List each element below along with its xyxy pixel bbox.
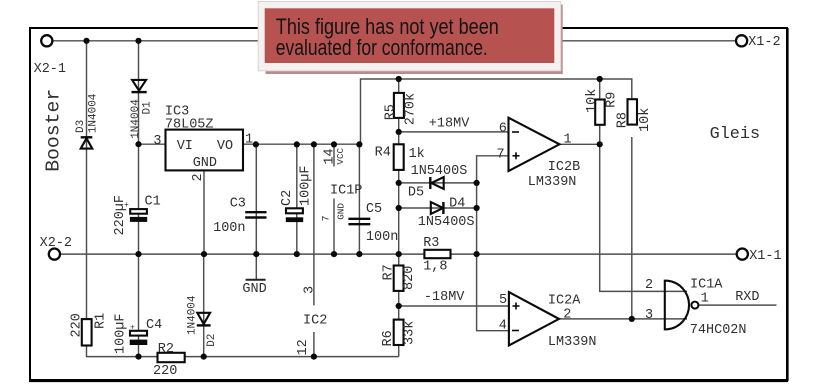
svg-text:-18MV: -18MV <box>424 290 465 305</box>
svg-text:IC1A: IC1A <box>690 278 723 293</box>
svg-text:12: 12 <box>296 339 311 355</box>
junction gnd rail / C2 <box>294 251 300 257</box>
junction gnd rail / feedback line <box>474 251 480 257</box>
wire: IC1P VCC pin14 <box>333 144 335 166</box>
junction VO rail / C5 <box>356 141 362 147</box>
svg-text:6: 6 <box>499 121 507 136</box>
resistor R6 33k <box>381 320 417 347</box>
svg-text:1: 1 <box>245 132 253 147</box>
op-amp IC2B LM339N <box>509 118 581 191</box>
svg-text:Gleis: Gleis <box>710 125 761 144</box>
resistor R4 1k <box>375 144 425 170</box>
resistor R9 10k <box>585 89 620 125</box>
svg-text:100µF: 100µF <box>114 313 129 354</box>
wire: D1/C1/C4 branch x=138.5 <box>138 41 140 254</box>
op-amp IC2A LM339N <box>509 292 597 350</box>
junction gnd rail / C3 GND <box>253 251 259 257</box>
svg-text:5: 5 <box>499 293 507 308</box>
svg-text:GND: GND <box>193 156 217 171</box>
junction bottom rail / C4 <box>135 354 141 360</box>
svg-text:3: 3 <box>645 308 653 323</box>
svg-text:IC2B: IC2B <box>548 160 580 175</box>
svg-text:IC2A: IC2A <box>548 293 581 308</box>
svg-text:R9: R9 <box>605 92 620 108</box>
junction top subrail / R5 <box>396 76 402 82</box>
wire: C5 branch <box>358 144 360 254</box>
junction VO rail / C3 <box>253 141 259 147</box>
resistor R7 820 <box>382 264 418 291</box>
svg-text:C2: C2 <box>280 190 295 206</box>
terminal X1-1 <box>737 249 782 265</box>
IC1P power element <box>322 147 363 221</box>
svg-text:GND: GND <box>335 203 346 220</box>
wire: IC2B out down to IC1A pin2 <box>600 144 687 291</box>
svg-text:1,8: 1,8 <box>423 260 447 275</box>
svg-text:2: 2 <box>563 307 571 322</box>
wire: VO +5V rail <box>243 79 632 144</box>
svg-text:220: 220 <box>70 313 85 337</box>
svg-text:7: 7 <box>322 215 333 221</box>
svg-text:1N5400S: 1N5400S <box>411 164 468 179</box>
svg-text:3: 3 <box>153 134 161 149</box>
svg-text:X2-2: X2-2 <box>40 236 72 251</box>
svg-text:X1-2: X1-2 <box>748 35 780 50</box>
junction R8 / IC2A out <box>629 316 635 322</box>
junction D4 right <box>474 205 480 211</box>
svg-text:1N4004: 1N4004 <box>187 295 199 335</box>
svg-text:2: 2 <box>645 278 653 293</box>
svg-text:X2-1: X2-1 <box>34 62 66 77</box>
regulator IC3 78L05Z <box>165 105 243 171</box>
svg-text:D3: D3 <box>75 120 87 133</box>
junction gnd rail / R7 <box>396 251 402 257</box>
svg-text:78L05Z: 78L05Z <box>165 118 214 133</box>
wire: D4 net <box>399 207 477 209</box>
svg-text:Booster: Booster <box>43 89 65 172</box>
junction IC3 pin3 <box>135 141 141 147</box>
svg-text:C4: C4 <box>146 318 162 333</box>
wire: D2 branch to bottom rail <box>203 254 205 357</box>
svg-text:100n: 100n <box>366 230 398 245</box>
svg-text:4: 4 <box>499 318 507 333</box>
svg-text:D1: D1 <box>142 101 154 115</box>
wire: R9 bottom <box>599 125 601 145</box>
resistor R5 270k <box>383 93 418 125</box>
wire: top net X2-1 rail <box>53 40 737 42</box>
svg-text:IC2: IC2 <box>303 314 327 329</box>
capacitor C1 220uF <box>113 195 161 236</box>
svg-text:X1-1: X1-1 <box>749 249 781 264</box>
terminal X2-2 <box>40 236 72 260</box>
wire: IC3 pin3 <box>139 143 166 145</box>
NOR gate IC1A 74HC02N <box>665 278 747 339</box>
svg-text:74HC02N: 74HC02N <box>690 323 747 338</box>
svg-text:+18MV: +18MV <box>429 117 470 132</box>
svg-text:D2: D2 <box>206 334 218 347</box>
wire: vertical feedback x=476.6 pin7 to pin4 <box>477 156 509 331</box>
resistor R1 220 <box>70 313 109 346</box>
svg-text:VCC: VCC <box>335 147 346 164</box>
svg-text:270k: 270k <box>404 93 419 125</box>
diode D2 <box>187 295 219 347</box>
svg-text:VI: VI <box>177 139 193 154</box>
svg-text:10k: 10k <box>585 89 600 113</box>
svg-text:100n: 100n <box>213 221 245 236</box>
svg-text:R3: R3 <box>423 236 439 251</box>
wire: IC2 power pin3 branch <box>313 144 315 305</box>
svg-text:R2: R2 <box>158 342 174 357</box>
svg-text:+: + <box>130 324 135 333</box>
svg-text:3: 3 <box>302 286 317 294</box>
svg-text:33k: 33k <box>402 321 417 345</box>
wire: +18MV to IC2B pin6 <box>399 131 509 133</box>
svg-text:R8: R8 <box>615 112 630 128</box>
wire: -18MV to IC2A pin5 <box>399 305 509 307</box>
svg-text:R5: R5 <box>383 104 398 120</box>
svg-text:220µF: 220µF <box>113 195 128 236</box>
wire: C4 branch below rail <box>138 254 140 357</box>
svg-text:1N4004: 1N4004 <box>130 99 142 139</box>
resistor R3 1,8 <box>423 236 450 275</box>
wire: RXD output <box>698 304 776 306</box>
svg-text:7: 7 <box>497 147 505 162</box>
svg-text:D4: D4 <box>449 197 465 212</box>
wire: IC2A output to IC1A pin3 <box>559 318 687 320</box>
svg-text:R7: R7 <box>382 264 397 280</box>
wire: R8 bottom to output net <box>631 137 633 319</box>
junction VO rail / C2 <box>294 141 300 147</box>
svg-text:1N4004: 1N4004 <box>87 93 99 133</box>
junction gnd rail / IC3 pin2 D2 <box>201 251 207 257</box>
wire: gnd rail X2-2 to X1-1 <box>60 253 737 255</box>
junction D5 right <box>474 180 480 186</box>
svg-text:C1: C1 <box>145 195 161 210</box>
capacitor C4 100uF <box>114 313 163 354</box>
svg-text:1: 1 <box>564 132 572 147</box>
wire: R1 bottom to bottom rail <box>87 346 399 357</box>
terminal X2-1 <box>34 35 66 77</box>
svg-text:R1: R1 <box>93 313 108 329</box>
capacitor C5 100n <box>348 202 398 245</box>
svg-text:10k: 10k <box>638 108 653 132</box>
svg-text:D5: D5 <box>408 186 424 201</box>
svg-text:100µF: 100µF <box>298 165 313 206</box>
junction gnd rail / IC1P GND <box>331 251 337 257</box>
svg-text:1N5400S: 1N5400S <box>418 215 475 230</box>
svg-text:RXD: RXD <box>735 290 759 305</box>
svg-text:LM339N: LM339N <box>528 175 577 190</box>
junction gnd rail / C5 <box>356 251 362 257</box>
svg-text:C3: C3 <box>230 197 246 212</box>
IC2 power element <box>296 286 327 356</box>
wire: R9 top <box>599 79 601 100</box>
wire: D5 net <box>399 182 477 184</box>
svg-text:1: 1 <box>701 291 709 306</box>
junction VO rail / IC1P VCC <box>331 141 337 147</box>
junction top rail / D1 branch <box>135 38 141 44</box>
wire: IC1P GND pin7 <box>333 199 335 255</box>
svg-text:R6: R6 <box>381 330 396 346</box>
junction R7/R6 -18MV <box>396 303 402 309</box>
junction IC2B output / R9 <box>597 141 603 147</box>
diode D1 <box>130 80 154 139</box>
junction bottom rail / D2 <box>201 354 207 360</box>
wire: left booster branch x=86.5 <box>86 41 88 319</box>
capacitor C2 100uF <box>280 165 313 222</box>
junction bottom rail / IC2 pin12 <box>311 354 317 360</box>
wire: C2 branch <box>296 144 298 254</box>
resistor R8 10k <box>615 99 653 132</box>
diode D4 1N5400S <box>418 197 475 231</box>
wire: IC2 power pin12 branch <box>313 332 315 357</box>
svg-text:GND: GND <box>242 282 266 297</box>
svg-text:2: 2 <box>191 173 206 181</box>
wire: IC2B output to R9 junction <box>560 143 600 145</box>
junction R5/R4 +18MV <box>396 129 402 135</box>
svg-text:220: 220 <box>153 364 177 379</box>
svg-text:R4: R4 <box>375 146 391 161</box>
svg-text:IC1P: IC1P <box>330 183 362 198</box>
junction D4 left <box>396 205 402 211</box>
wire: C3 branch <box>255 144 257 254</box>
svg-text:evaluated for conformance.: evaluated for conformance. <box>276 35 488 60</box>
wire: R7/R6 chain <box>398 254 400 357</box>
junction VO rail / IC2 pin3 <box>311 141 317 147</box>
junction gnd rail / C1-C4 <box>135 251 141 257</box>
wire: GND stub below rail <box>255 254 257 279</box>
svg-text:C5: C5 <box>366 202 382 217</box>
terminal X1-2 <box>736 35 781 50</box>
resistor R2 220 <box>153 342 185 379</box>
svg-text:820: 820 <box>402 266 417 290</box>
capacitor C3 100n <box>213 197 266 237</box>
svg-text:VO: VO <box>217 139 233 154</box>
conformance banner <box>258 2 563 75</box>
wire: divider chain R5/R4 x=398.7 <box>398 79 400 254</box>
svg-text:LM339N: LM339N <box>548 335 597 350</box>
junction top subrail / R9 <box>597 76 603 82</box>
ground symbol GND (below rail) <box>242 280 266 297</box>
wire: IC3 pin2 down to gnd rail <box>203 170 205 254</box>
diode D5 1N5400S <box>408 164 467 201</box>
diode D3 <box>75 93 100 148</box>
junction D5 left <box>396 180 402 186</box>
junction top rail / booster branch <box>83 38 89 44</box>
svg-text:1k: 1k <box>409 147 425 162</box>
